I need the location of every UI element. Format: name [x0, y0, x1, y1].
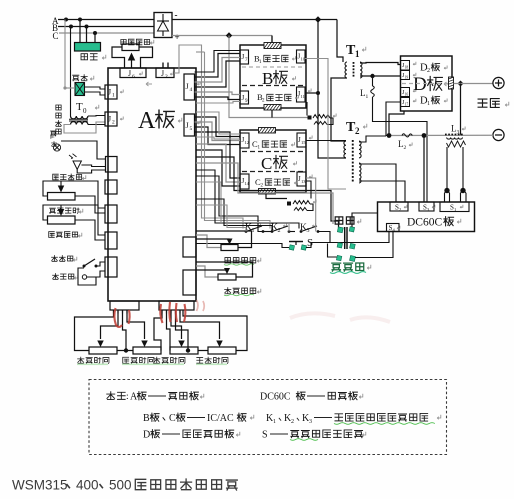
junction diamond plus — [226, 32, 232, 38]
wire T1 right top — [360, 63, 401, 65]
label B1 heatsink — [254, 54, 295, 66]
svg-text:2: 2 — [404, 145, 407, 151]
wire gray vertical k2 — [196, 52, 270, 229]
wire potA left — [196, 235, 221, 248]
label B2 heatsink — [257, 92, 298, 104]
wire T2 right bottom — [359, 156, 368, 160]
transformer T1 — [345, 62, 362, 78]
wire thrust pot — [43, 205, 105, 240]
svg-text:T: T — [76, 101, 83, 113]
label minus — [175, 10, 178, 20]
wire T2 right top — [359, 122, 386, 142]
junction dots on phase lines — [64, 18, 97, 36]
connector S4 — [387, 224, 400, 233]
pot 电压调节 — [122, 44, 139, 51]
D board gray dashed — [402, 83, 448, 85]
svg-text:12: 12 — [245, 140, 250, 145]
arrow into A board — [128, 53, 136, 69]
svg-text:C: C — [53, 31, 59, 41]
wire J13 branch — [306, 181, 311, 199]
wire S right to S4 — [306, 232, 389, 248]
svg-text:1: 1 — [273, 419, 276, 425]
pot 气体延时 — [48, 181, 76, 200]
connector J6 — [120, 68, 146, 80]
svg-text:5: 5 — [190, 126, 193, 132]
svg-text:S: S — [262, 430, 268, 441]
svg-text:2: 2 — [291, 419, 294, 425]
connector J9 — [240, 91, 249, 104]
wire A to J14 b — [196, 144, 240, 182]
svg-text:15: 15 — [301, 140, 306, 145]
wire A long to S2 b — [196, 163, 333, 224]
wire A upper gray j2p — [196, 51, 205, 53]
A bottom pins L — [114, 310, 128, 314]
wire band k4 — [196, 176, 263, 232]
connector J19 — [401, 71, 416, 80]
label 脉冲焊 — [53, 274, 78, 280]
wire gas delay pot — [43, 181, 105, 213]
A bottom pins R — [162, 310, 180, 314]
caption WSM315 400 500 — [12, 478, 237, 493]
svg-text:6: 6 — [132, 74, 135, 80]
legend dashed box — [89, 380, 447, 455]
wire D16 down — [405, 97, 407, 100]
svg-text:13: 13 — [301, 179, 306, 184]
label 输出 — [478, 99, 509, 108]
svg-text:J: J — [161, 69, 164, 78]
wire J13 down — [306, 178, 316, 232]
pot 推力调节 — [48, 205, 76, 224]
wire pad mid left — [328, 243, 341, 257]
wire gray vertical k1 — [174, 45, 243, 229]
wire RS2 hookup — [266, 199, 287, 204]
pot 收弧时间 — [133, 341, 161, 355]
C board dashed 2 — [242, 171, 304, 173]
wire plus drop to B-board heatsink — [271, 36, 273, 46]
inductor L3 with damping resistor — [445, 124, 466, 148]
switch 连续焊 — [83, 259, 106, 268]
label C2 heatsink — [255, 177, 297, 189]
DC60C board box — [378, 202, 475, 232]
output minus terminal — [493, 129, 504, 140]
connector C3 — [106, 157, 118, 173]
junction diamond minus — [315, 16, 321, 22]
wire pot bracket left — [112, 47, 125, 68]
wire band k7 — [196, 205, 246, 232]
wire J4 to J7 c — [195, 61, 241, 87]
svg-text:D: D — [413, 74, 427, 95]
label 衰减时间 — [196, 357, 228, 365]
connector C4 — [105, 180, 117, 194]
label 推力调节 — [49, 232, 82, 238]
wire A edge stub group2e — [196, 137, 240, 139]
connector CR2 — [183, 270, 196, 295]
connector bottom left — [110, 301, 139, 310]
B board box — [240, 45, 306, 108]
transformer T2 — [344, 140, 361, 183]
wire T0 leads — [64, 116, 105, 134]
wire potB left — [196, 266, 218, 277]
wire pad top right up — [352, 213, 378, 227]
label 气体延时 — [50, 208, 83, 213]
connector J18 — [401, 61, 416, 71]
wire pot3 wiper — [171, 314, 182, 340]
B board black dashed — [242, 85, 304, 87]
connector J2 — [105, 112, 123, 126]
wire valve to J1 — [85, 87, 106, 95]
wire A long to S2 a — [196, 157, 339, 228]
wire J5 to J12 a — [195, 117, 241, 137]
connector S1 — [440, 202, 469, 212]
A board box — [108, 68, 196, 301]
svg-text:J: J — [108, 115, 111, 124]
fan 风扇 (green box) — [75, 43, 101, 52]
label D1板 — [420, 96, 447, 108]
lamp symbol — [50, 131, 61, 151]
D board right heatsink — [449, 77, 454, 89]
switch K2 — [268, 223, 295, 234]
svg-text:J: J — [186, 121, 189, 130]
svg-text:4: 4 — [190, 87, 193, 93]
label 起弧时间 — [77, 357, 109, 365]
B board top heatsink — [264, 43, 283, 49]
switch K1 — [245, 223, 268, 234]
pot 基值电流 — [218, 268, 236, 280]
connector J12 — [240, 133, 250, 148]
label C1 heatsink — [252, 139, 294, 151]
svg-text:19: 19 — [405, 75, 409, 79]
wire S left — [196, 244, 289, 248]
label 电焊 — [335, 217, 361, 224]
svg-text:1: 1 — [427, 101, 430, 107]
D board box — [401, 56, 453, 111]
label DC60C板 — [407, 217, 461, 229]
svg-text:16: 16 — [405, 92, 409, 96]
svg-text:3: 3 — [309, 419, 312, 425]
label 连续焊 — [52, 256, 77, 262]
wire J5 to J12 c — [195, 127, 241, 145]
connector J14 — [240, 174, 250, 189]
wire minus rail — [389, 134, 493, 136]
wire pot3 right junction — [176, 314, 189, 351]
svg-text:-: - — [175, 10, 178, 20]
wire B bottom heatsink down — [271, 110, 273, 118]
wire T1 right bottom — [360, 74, 401, 78]
node A B C phase labels — [52, 16, 59, 41]
wire DC plus bus — [172, 35, 272, 37]
wire potB outer — [196, 262, 253, 277]
gas valve (green crossed box) — [75, 83, 85, 96]
wire output minus vertical — [460, 84, 462, 136]
junction dot L2 left — [387, 133, 392, 138]
switch K3 — [300, 223, 330, 242]
wire fan feeders — [80, 20, 95, 43]
connector C7 — [105, 257, 117, 277]
wire A to J14 c — [196, 150, 240, 186]
svg-text:C: C — [169, 413, 176, 424]
wire J10 right gray — [305, 59, 346, 190]
junction dot L2 right — [422, 133, 427, 202]
connector J11 — [297, 87, 312, 102]
svg-text:WSM315: WSM315 — [12, 478, 68, 493]
connector S3 — [419, 202, 435, 212]
label D板 — [413, 74, 450, 95]
connector J13 — [297, 172, 312, 186]
wire gray vertical from A line — [64, 20, 66, 89]
label 风扇 — [81, 54, 106, 60]
connector C5 — [105, 205, 117, 223]
label A板 — [138, 82, 182, 134]
label 氩弧焊 — [330, 263, 371, 273]
legend row1 left — [107, 392, 204, 403]
legend row1 right — [260, 392, 363, 403]
C board dashed 1 — [242, 151, 304, 153]
wire D board feeds — [389, 67, 401, 69]
label 基值时间 — [153, 357, 185, 365]
pot row link 1-2 — [117, 348, 133, 352]
inductor L1 — [360, 76, 427, 202]
overheat LED — [69, 154, 106, 173]
label 电压调节 — [121, 39, 154, 45]
svg-text:1: 1 — [355, 49, 360, 59]
wire J4 to J7 a — [195, 54, 241, 78]
pot 衰减时间 — [208, 341, 236, 355]
gas valve 气阀 label — [73, 75, 94, 81]
svg-text:400: 400 — [76, 478, 99, 493]
svg-text:11: 11 — [301, 94, 306, 99]
svg-text:17: 17 — [405, 102, 409, 106]
svg-text:18: 18 — [405, 65, 409, 69]
transformer T0 — [69, 116, 88, 125]
wire minus branch to T1 — [337, 20, 343, 63]
transformer T0 label — [76, 101, 99, 115]
svg-text:2: 2 — [112, 120, 115, 126]
svg-text:DC60C: DC60C — [260, 392, 291, 403]
connector J15 — [297, 133, 312, 147]
green pads top — [337, 227, 354, 233]
svg-text:2: 2 — [399, 207, 401, 212]
label plus — [175, 32, 180, 42]
wire pot1 wiper — [101, 314, 119, 340]
B board gray dashed — [242, 66, 304, 68]
B board bottom heatsink — [264, 105, 283, 111]
wire pot bracket right — [139, 47, 153, 68]
wire T2 sec2 bottom — [359, 181, 405, 202]
wire DC minus bus — [172, 19, 337, 21]
green pads bottom — [336, 255, 355, 261]
wire J4 to J7 b — [195, 58, 241, 83]
svg-text:1: 1 — [366, 94, 369, 100]
wire J5 to J14 a — [195, 132, 241, 178]
junction square C resistor — [287, 202, 291, 206]
svg-text:2: 2 — [355, 126, 360, 136]
connector J4 — [184, 74, 200, 100]
svg-text:C: C — [261, 154, 272, 173]
wire J16 down — [389, 92, 401, 114]
wire phase A — [58, 19, 154, 21]
wire band b1 — [196, 137, 240, 149]
wire pot1 left — [75, 314, 114, 351]
svg-text:1: 1 — [454, 207, 456, 212]
wire vertical B to T0 — [70, 27, 72, 117]
wire potA outer — [196, 231, 252, 248]
label B板 — [262, 69, 295, 88]
wire pot1 right junction — [123, 314, 127, 351]
svg-text:J: J — [128, 69, 131, 78]
wire black to K3 — [196, 170, 299, 229]
wire T1 left bottom — [331, 78, 347, 141]
wire pot3 left — [167, 314, 171, 351]
wire valve left — [63, 86, 75, 89]
connector J5 — [184, 114, 200, 136]
svg-text:B: B — [143, 413, 150, 424]
wire J4 to J9 c — [196, 102, 240, 104]
label 焊接电流 — [224, 258, 261, 266]
connector S2 — [390, 202, 408, 212]
wire J5 to J12 b — [195, 122, 241, 141]
plug bars 电焊 — [345, 227, 347, 249]
wire plus drop x229 — [229, 36, 308, 118]
wire J17 down2 — [386, 102, 401, 136]
wire argon right to S4 — [355, 232, 393, 258]
wire band k6 — [196, 199, 272, 232]
svg-text:2: 2 — [427, 68, 430, 74]
sampling resistor RS2 — [293, 200, 316, 211]
wire lamp to conn3 — [61, 141, 106, 160]
connector J7 — [240, 50, 249, 64]
wire J5 to J12 top — [196, 112, 240, 134]
circle 脉冲焊 contact — [78, 268, 105, 285]
wire pot2 wiper — [127, 314, 145, 340]
wire J4 to J9 a — [195, 92, 241, 95]
svg-text:1: 1 — [112, 93, 115, 99]
wire pot4 right — [183, 296, 247, 351]
svg-text:D: D — [143, 430, 150, 441]
pot row link 3-4 — [179, 348, 208, 352]
svg-text:+: + — [175, 32, 180, 42]
power indicator 电源指示 label — [56, 105, 62, 134]
connector J16 — [401, 88, 416, 97]
wire T2 sec2 top — [359, 164, 396, 202]
wire J4 to J9 b — [195, 97, 241, 100]
wire J11 tap — [305, 91, 320, 95]
label T2 — [346, 120, 367, 136]
svg-text:DC60C: DC60C — [407, 217, 442, 229]
svg-text:0: 0 — [83, 107, 87, 115]
C board bottom heatsink — [259, 189, 278, 195]
label C板 — [261, 154, 296, 173]
label D2板 — [420, 63, 447, 75]
inductor L2 — [398, 134, 412, 151]
legend row2 left — [143, 413, 254, 424]
wire band k8 — [196, 211, 252, 234]
C board box — [240, 130, 306, 193]
pot 焊接电流 — [221, 239, 238, 251]
connector bottom right — [159, 301, 194, 310]
wire potB wiper — [196, 269, 227, 271]
label 过热指示 — [53, 174, 86, 180]
connector J2 top — [156, 63, 174, 81]
svg-text::: : — [126, 392, 129, 402]
wire minus drop x318 — [318, 20, 346, 159]
junction diamond output — [458, 81, 464, 87]
wire pot2 right — [154, 314, 162, 351]
wire pot4 wiper — [180, 314, 220, 340]
push button S — [289, 237, 313, 250]
wire band k5 — [196, 182, 289, 232]
label 收弧时间 — [122, 357, 154, 365]
wire J4 to J7 top — [195, 51, 241, 73]
wire L3 legs — [444, 147, 466, 202]
svg-text:J: J — [108, 88, 111, 97]
connector J17 — [401, 98, 416, 107]
svg-text:14: 14 — [245, 181, 250, 186]
svg-text:IC/AC: IC/AC — [207, 413, 234, 424]
red watermark — [114, 300, 390, 327]
wire C bottom heatsink down — [266, 194, 287, 199]
sampling resistor RS1 — [313, 114, 336, 125]
junction square B resistor — [307, 102, 312, 120]
legend row3 left — [143, 430, 240, 441]
svg-text:500: 500 — [109, 478, 132, 493]
wire D17 down — [389, 107, 404, 134]
legend row2 right — [266, 413, 441, 425]
wire potA wiper — [196, 238, 230, 240]
C board top heatsink — [259, 128, 278, 134]
connector J10 — [297, 50, 306, 63]
output plus terminal — [493, 77, 504, 88]
connector J1 — [105, 85, 123, 99]
bridge rectifier VC — [154, 13, 172, 38]
pot 起弧时间 — [89, 341, 117, 355]
wire pad mid right — [351, 243, 353, 246]
label 基值电流 — [224, 288, 261, 296]
label T1 — [346, 43, 366, 59]
green pads mid — [337, 243, 355, 249]
pot 基值时间 — [170, 341, 198, 355]
svg-text:A: A — [138, 108, 156, 134]
wire D heatsink to plus terminal — [454, 83, 494, 85]
wire phase B — [58, 26, 154, 28]
wire J15 to T2 — [306, 140, 346, 142]
svg-text:2: 2 — [165, 74, 168, 80]
wire phase C — [59, 32, 154, 34]
connector CR1 — [183, 237, 196, 257]
legend row3 right — [262, 430, 366, 441]
svg-text:J: J — [186, 82, 189, 91]
connector C6 — [105, 232, 117, 249]
